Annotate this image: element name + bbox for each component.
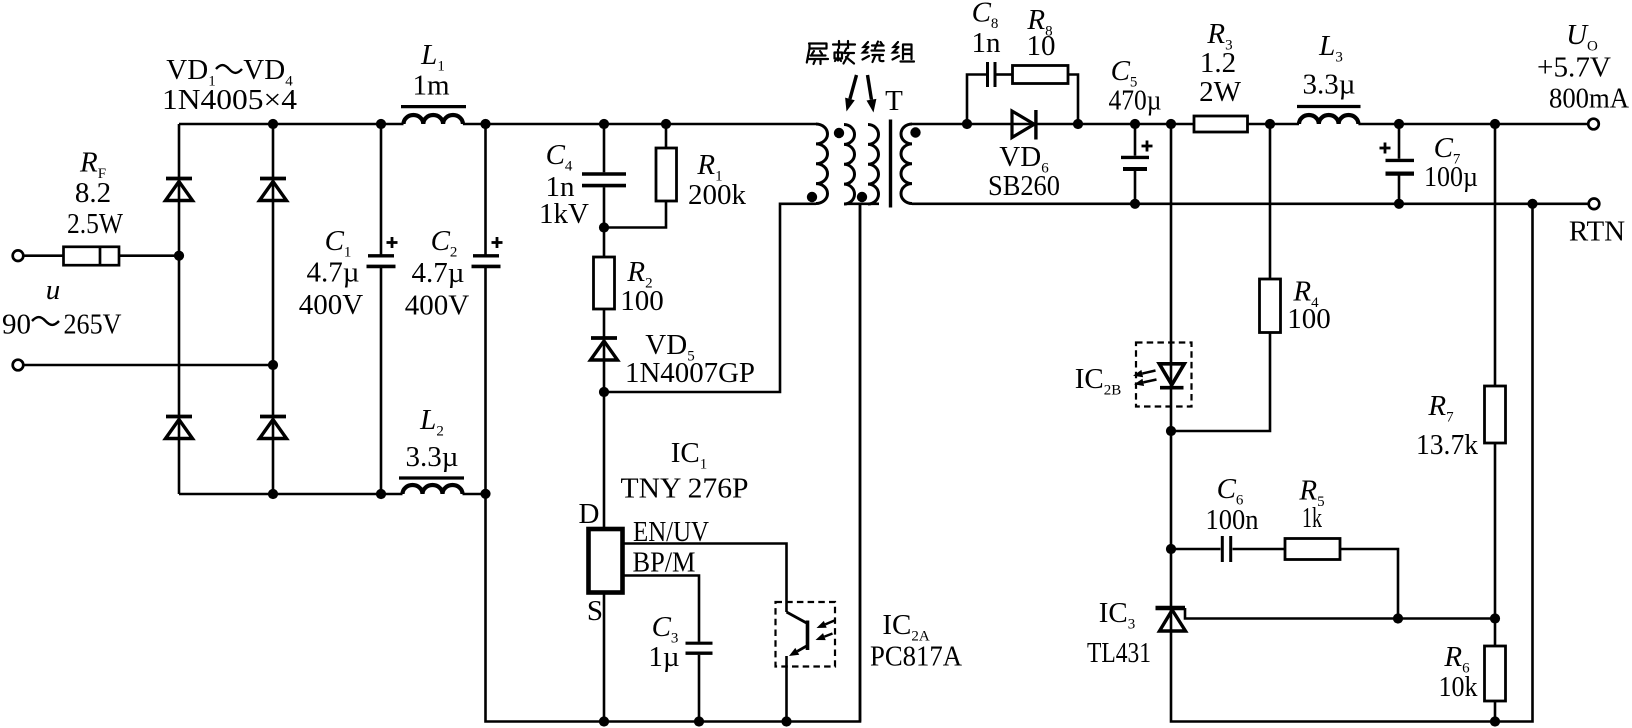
svg-text:10k: 10k bbox=[1439, 671, 1478, 703]
svg-text:TNY 276P: TNY 276P bbox=[621, 473, 749, 505]
svg-text:1n: 1n bbox=[972, 27, 1002, 59]
svg-text:TL431: TL431 bbox=[1087, 637, 1151, 669]
svg-text:1N4007GP: 1N4007GP bbox=[625, 357, 755, 389]
svg-text:100: 100 bbox=[1287, 303, 1331, 335]
svg-text:EN/UV: EN/UV bbox=[633, 516, 709, 548]
svg-text:4.7µ: 4.7µ bbox=[307, 257, 360, 289]
svg-text:2W: 2W bbox=[1199, 76, 1242, 108]
svg-text:200k: 200k bbox=[688, 179, 747, 211]
svg-text:265V: 265V bbox=[64, 309, 122, 341]
svg-text:BP/M: BP/M bbox=[633, 547, 696, 579]
svg-text:8.2: 8.2 bbox=[75, 177, 111, 209]
svg-text:u: u bbox=[46, 274, 61, 306]
svg-text:400V: 400V bbox=[299, 289, 364, 321]
svg-text:10: 10 bbox=[1027, 30, 1056, 62]
svg-text:1N4005×4: 1N4005×4 bbox=[162, 84, 298, 116]
svg-text:100: 100 bbox=[620, 285, 664, 317]
svg-text:1µ: 1µ bbox=[648, 641, 679, 673]
svg-text:1m: 1m bbox=[412, 70, 450, 102]
svg-text:3.3µ: 3.3µ bbox=[406, 441, 459, 473]
svg-text:D: D bbox=[579, 498, 600, 530]
svg-text:100µ: 100µ bbox=[1424, 161, 1478, 193]
svg-text:470µ: 470µ bbox=[1109, 85, 1162, 117]
svg-text:S: S bbox=[587, 595, 603, 627]
svg-text:90: 90 bbox=[2, 309, 31, 341]
svg-text:13.7k: 13.7k bbox=[1416, 429, 1478, 461]
svg-text:RTN: RTN bbox=[1569, 216, 1625, 248]
svg-text:2.5W: 2.5W bbox=[67, 208, 124, 240]
svg-text:4.7µ: 4.7µ bbox=[412, 257, 465, 289]
svg-text:800mA: 800mA bbox=[1549, 83, 1629, 115]
svg-text:1.2: 1.2 bbox=[1200, 47, 1236, 79]
svg-text:+5.7V: +5.7V bbox=[1537, 52, 1611, 84]
svg-text:1k: 1k bbox=[1302, 502, 1322, 534]
svg-text:100n: 100n bbox=[1206, 504, 1259, 536]
svg-text:1kV: 1kV bbox=[539, 198, 589, 230]
svg-text:PC817A: PC817A bbox=[870, 641, 962, 673]
svg-text:3.3µ: 3.3µ bbox=[1303, 69, 1356, 101]
svg-text:400V: 400V bbox=[405, 290, 470, 322]
svg-text:SB260: SB260 bbox=[988, 170, 1060, 202]
svg-text:T: T bbox=[885, 85, 903, 117]
